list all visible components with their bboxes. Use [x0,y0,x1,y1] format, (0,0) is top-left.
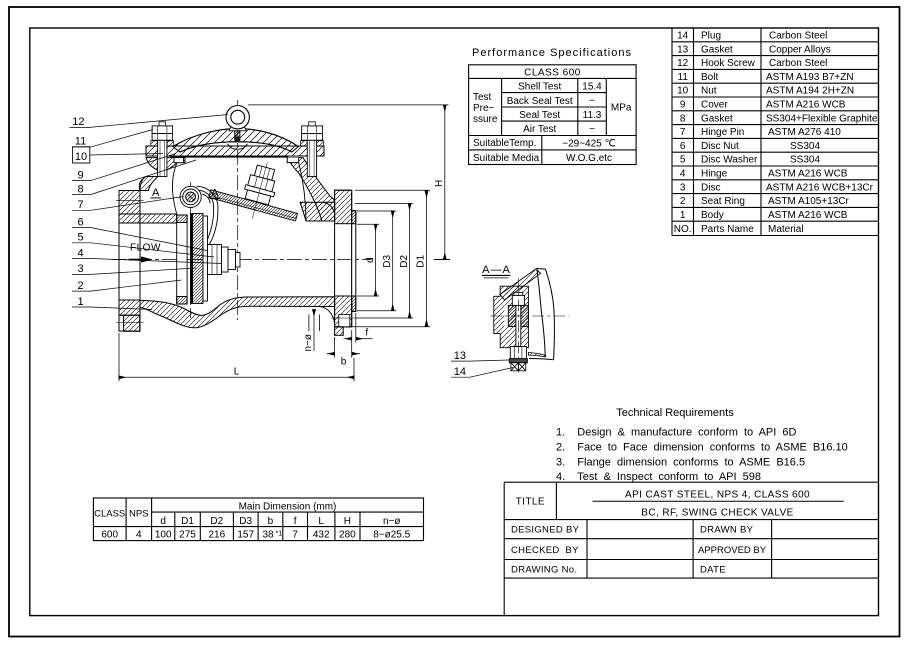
svg-text:NO.: NO. [674,224,692,235]
svg-text:Hook Screw: Hook Screw [701,58,756,69]
hinge pin head [514,292,523,295]
svg-text:L: L [234,367,240,378]
svg-text:D1: D1 [181,516,194,527]
disc washer plate [203,216,208,301]
svg-text:D2: D2 [210,516,223,527]
right flange bolt hole [339,315,350,327]
svg-text:13: 13 [677,44,689,55]
svg-text:CHECKED BY: CHECKED BY [511,545,579,556]
gasket joint (8) dark line [170,156,288,158]
svg-text:2: 2 [680,196,686,207]
eyebolt shank (hatched) [235,131,240,139]
dim D2 [409,203,411,318]
svg-text:W.O.G.etc: W.O.G.etc [566,153,612,164]
right pipe top wall [300,202,335,221]
disc tilted (open) hatched bar [209,190,298,221]
svg-text:H: H [344,516,351,527]
svg-text:Pre−: Pre− [473,103,495,114]
left flange bolt hole marks [116,200,144,202]
body neck right [287,158,334,221]
svg-text:11: 11 [75,136,86,148]
svg-text:D2: D2 [399,254,410,267]
left flange (body end) [119,191,140,332]
centerline vertical valve axis [237,100,239,320]
svg-text:8: 8 [680,113,686,124]
svg-text:APPROVED BY: APPROVED BY [698,545,767,556]
eyebolt stem [229,126,246,131]
svg-text:TITLE: TITLE [516,497,545,508]
svg-text:14: 14 [454,366,466,378]
svg-text:ASTM A216 WCB: ASTM A216 WCB [766,100,846,111]
svg-text:38: 38 [262,530,274,541]
hinge pin shaft [516,305,521,346]
svg-text:Suitable Media: Suitable Media [473,153,540,164]
svg-text:13: 13 [454,350,466,362]
svg-text:Seat Ring: Seat Ring [701,196,745,207]
svg-text:D1: D1 [416,254,427,267]
svg-text:4: 4 [136,530,142,541]
dome inner U-dip under eyebolt [227,144,247,150]
svg-text:n−ø: n−ø [303,334,314,352]
svg-text:A—A: A—A [482,264,511,276]
cavity wall left [172,163,177,214]
svg-text:2: 2 [77,280,83,292]
svg-text:SS304: SS304 [790,155,820,166]
svg-text:1. Design & manufacture confo: 1. Design & manufacture conform to API 6… [556,427,796,439]
svg-text:432: 432 [313,530,330,541]
svg-text:d: d [160,516,166,527]
svg-text:ASTM A276 410: ASTM A276 410 [768,127,841,138]
hinge arm arcs (4) [197,186,218,245]
svg-text:Material: Material [768,224,804,235]
centerline horizontal [490,315,569,317]
bushing bore gap [504,305,508,326]
n-phi label [313,310,315,352]
gasket 13 (dark ring) [509,359,527,363]
svg-text:600: 600 [101,530,118,541]
svg-text:3: 3 [680,182,686,193]
svg-text:Disc Washer: Disc Washer [701,155,758,166]
svg-text:CLASS: CLASS [94,509,125,520]
svg-text:MPa: MPa [611,103,632,114]
svg-text:8: 8 [77,183,83,195]
right flange [335,190,352,327]
cavity wall right [299,163,306,221]
svg-text:n−ø: n−ø [383,516,401,527]
svg-text:SS304+Flexible Graphite: SS304+Flexible Graphite [766,113,878,124]
dim H [444,105,446,260]
svg-text:Disc Nut: Disc Nut [701,141,739,152]
svg-text:7: 7 [680,127,686,138]
svg-text:9: 9 [77,169,83,181]
svg-text:Technical Requirements: Technical Requirements [616,407,734,419]
nut left (10) [152,126,173,134]
svg-text:2. Face to Face dimension con: 2. Face to Face dimension conforms to AS… [556,442,848,454]
svg-text:Air Test: Air Test [523,124,556,135]
svg-text:−: − [589,124,595,135]
dim b [334,337,336,358]
svg-text:10: 10 [75,151,87,163]
svg-text:100: 100 [155,530,172,541]
hinge boss bracket (hatched section) [494,286,529,348]
disc closed (3) [191,214,204,304]
dim d [375,224,377,296]
svg-text:11: 11 [678,72,689,83]
right flange raised face [352,211,356,312]
bolt boss hatch left [151,141,158,146]
svg-text:f: f [365,328,368,339]
svg-text:10: 10 [677,86,689,97]
body outer wall left wave [139,177,146,191]
svg-text:SS304: SS304 [790,141,820,152]
hinge arm rib band [500,269,541,300]
seat ring (2) [177,215,187,304]
svg-text:Test: Test [473,92,492,103]
svg-text:DATE: DATE [700,564,726,575]
svg-text:ASTM A194 2H+ZN: ASTM A194 2H+ZN [766,86,854,97]
svg-text:b: b [341,357,347,368]
bolt stud tip right [309,122,316,126]
ext lines right [248,104,449,106]
svg-text:*1: *1 [276,531,283,538]
svg-text:12: 12 [72,116,84,128]
svg-text:Hinge: Hinge [701,169,728,180]
plug 14 (crosshatched) [511,363,526,371]
svg-text:12: 12 [677,58,689,69]
svg-text:15.4: 15.4 [582,82,602,93]
centerline hinge pin vertical [190,182,192,318]
bolt stud left (11) [158,140,167,176]
svg-text:Cover: Cover [701,100,728,111]
body flange left [146,158,185,172]
gasket recess notches [174,158,183,163]
svg-text:H: H [434,180,445,187]
svg-text:14: 14 [677,31,689,42]
bottom body wall [140,297,335,328]
svg-text:Carbon Steel: Carbon Steel [769,58,827,69]
svg-text:Performance Specifications: Performance Specifications [472,47,632,59]
centerline horizontal bore axis [112,259,372,261]
svg-text:4. Test & Inspect conform to: 4. Test & Inspect conform to API 598 [556,471,761,483]
svg-text:ASTM A216 WCB: ASTM A216 WCB [768,210,848,221]
svg-text:f: f [294,516,297,527]
pin nut [510,347,526,359]
bushing right [521,305,529,326]
svg-text:5: 5 [680,155,686,166]
svg-text:9: 9 [680,100,686,111]
svg-text:Gasket: Gasket [701,113,733,124]
svg-text:ASTM A105+13Cr: ASTM A105+13Cr [768,196,850,207]
svg-text:3. Flange dimension conforms: 3. Flange dimension conforms to ASME B16… [556,457,805,469]
bolt boss hatch right [300,141,307,146]
svg-text:275: 275 [179,530,196,541]
hinge pin boss + pin (7) [180,186,201,207]
svg-text:Gasket: Gasket [701,44,733,55]
svg-text:D3: D3 [239,516,252,527]
svg-text:216: 216 [208,530,225,541]
svg-text:DRAWING No.: DRAWING No. [511,564,577,575]
svg-text:A: A [152,187,160,199]
bushing left [508,305,516,326]
svg-text:D3: D3 [382,254,393,267]
cover dome [173,129,298,153]
svg-text:7: 7 [292,530,298,541]
svg-text:Copper Alloys: Copper Alloys [769,44,831,55]
svg-text:Shell Test: Shell Test [518,82,561,93]
svg-text:Plug: Plug [701,31,721,42]
svg-text:BC, RF, SWING CHECK VALVE: BC, RF, SWING CHECK VALVE [641,508,793,519]
svg-text:Disc: Disc [701,182,720,193]
svg-text:Main Dimension (mm): Main Dimension (mm) [239,502,337,513]
svg-text:8−ø25.5: 8−ø25.5 [373,530,410,541]
svg-text:Back Seal Test: Back Seal Test [507,96,573,107]
svg-text:6: 6 [680,141,686,152]
body wall right (curved) [537,269,546,358]
nut right [302,126,323,134]
svg-text:Nut: Nut [701,86,717,97]
eyebolt shank tip (dark) [234,137,240,142]
svg-text:ASTM A193 B7+ZN: ASTM A193 B7+ZN [766,72,854,83]
callout 13 [451,350,513,378]
cover flange band (bonnet) [146,146,324,156]
svg-text:SuitableTemp.: SuitableTemp. [473,138,536,149]
svg-text:−: − [589,96,595,107]
disc nut stack on tilted disc (5,6) [238,159,282,223]
svg-text:A: A [211,187,219,199]
svg-text:4: 4 [77,247,83,259]
disc nut stack at bore center [208,245,222,275]
bolt stud tip left [159,122,166,126]
dim L [118,333,120,381]
dim D1 [426,191,428,326]
svg-text:Body: Body [701,210,724,221]
svg-text:1: 1 [680,210,686,221]
svg-text:L: L [318,516,324,527]
svg-text:ASTM A216 WCB+13Cr: ASTM A216 WCB+13Cr [766,182,874,193]
svg-text:NPS: NPS [129,509,149,520]
lifting ring R12 [226,106,249,129]
svg-text:157: 157 [237,530,254,541]
svg-text:ssure: ssure [473,114,498,125]
svg-text:API CAST STEEL, NPS 4, CLASS 6: API CAST STEEL, NPS 4, CLASS 600 [625,490,810,501]
svg-text:b: b [268,516,274,527]
bolt stud right [307,140,316,176]
svg-text:1: 1 [77,296,83,308]
svg-text:11.3: 11.3 [583,110,602,121]
svg-text:d: d [365,257,376,263]
bore top wall left [119,214,177,223]
svg-text:Carbon Steel: Carbon Steel [769,31,827,42]
svg-text:6: 6 [77,216,83,228]
dim D3 [392,211,394,311]
svg-text:4: 4 [680,169,686,180]
svg-text:280: 280 [339,530,356,541]
svg-text:−29~425 ℃: −29~425 ℃ [562,138,616,149]
svg-text:ASTM A216 WCB: ASTM A216 WCB [768,169,848,180]
svg-text:CLASS 600: CLASS 600 [524,67,581,78]
svg-text:7: 7 [77,199,83,211]
svg-text:DESIGNED BY: DESIGNED BY [511,525,580,536]
body neck left [140,177,158,191]
svg-text:Seal Test: Seal Test [519,110,560,121]
svg-text:Hinge Pin: Hinge Pin [701,127,744,138]
svg-text:DRAWN BY: DRAWN BY [700,525,754,536]
svg-text:5: 5 [77,232,83,244]
centerline pin vertical [518,278,520,372]
svg-text:3: 3 [77,263,83,275]
svg-text:Parts Name: Parts Name [701,224,754,235]
dim f [355,313,357,343]
right flange bolt hole step [335,327,344,336]
svg-text:Bolt: Bolt [701,72,718,83]
